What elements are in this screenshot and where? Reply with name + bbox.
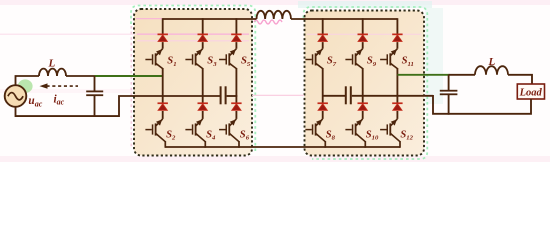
wire leg top S3 [202,18,204,34]
top rail left bridge [163,18,257,20]
cyan wash right of right box [425,8,443,104]
wire source top [16,76,40,85]
switch S5 diode+IGBT [231,34,241,36]
left bridge box pink outline left [130,26,132,148]
output cap plate bottom [440,93,458,95]
dashed current arrow i_ac [47,85,79,87]
top rail right bridge [291,18,397,20]
pink line left box top [136,18,162,20]
inductor L output [475,66,508,75]
wire leg top S7 [322,18,324,34]
switch S3 diode+IGBT [198,34,208,36]
green wire input to leg S1 [95,75,164,77]
left bridge capacitor right lead [227,95,238,97]
ac source circle [5,85,27,107]
right bridge cap rail [323,95,346,97]
output cap lower lead [448,95,450,115]
left bridge box dashed border [134,9,252,156]
svg-text:Load: Load [519,88,543,99]
pink band bottom [0,156,550,162]
phase node wire leg 1 [162,68,164,103]
right bridge capacitor plate right [350,86,352,104]
output cap plate top [440,90,458,92]
wire output cap node to inductor [449,74,475,76]
green wire S11 leg to output cap [397,74,449,76]
left bridge capacitor plate right [225,86,227,104]
left bridge box fill [134,9,252,156]
pink line between boxes [252,94,304,96]
wire leg top S1 [162,18,164,34]
pink line diode row left [137,33,249,35]
pink band mid [0,89,133,93]
wire inductor to cap node [66,75,95,77]
pink band top [0,0,550,5]
dc-link inductor [257,11,292,19]
right bridge box mint outline [304,7,428,159]
pink line diode row right [307,33,421,35]
wire leg top S5 [235,18,237,34]
wire source bottom [16,96,221,116]
svg-text:L: L [48,58,56,70]
switch S7 diode+IGBT [318,34,328,36]
pink ripple wave under link inductor [254,20,282,24]
input filter capacitor C lead [94,76,96,91]
inductor L input [39,69,66,76]
wire leg top S11 [396,18,398,34]
right bridge box fill [305,11,425,156]
right bridge cap rail to output [352,95,433,97]
input cap plate bottom [86,94,103,96]
cyan wash above right box [298,1,432,8]
switch S1 diode+IGBT [158,34,168,36]
input cap plate top [86,91,103,93]
switch S11 diode+IGBT [392,34,402,36]
switch S10 diode+IGBT [358,102,368,104]
pink line diode row outside [0,33,136,35]
switch S4 diode+IGBT [198,102,208,104]
svg-text:L: L [488,56,496,68]
right bridge box dashed border [305,11,425,156]
ac source sine [8,93,23,100]
phase node wire leg 5 [235,68,237,103]
phase node wire leg 7 [322,68,324,103]
left bridge capacitor plate left [220,86,222,104]
switch S9 diode+IGBT [358,34,368,36]
phase node wire leg 3 [202,68,204,103]
switch S8 diode+IGBT [318,102,328,104]
output capacitor top lead [448,75,450,90]
arrowhead i_ac [40,83,48,88]
switch S12 diode+IGBT [392,102,402,104]
switch S2 diode+IGBT [158,102,168,104]
pink line diode row left lower [137,40,249,42]
switch S6 diode+IGBT [231,102,241,104]
bottom rail both bridges [165,146,400,148]
load box [517,84,544,99]
phase node wire leg 11 [396,68,398,103]
wire load bottom [433,95,531,114]
wire leg top S9 [362,18,364,34]
green highlight on source [18,79,33,93]
left bridge box mint outline [131,6,255,152]
right bridge capacitor plate left [345,86,347,104]
wire inductor to load [508,75,532,84]
phase node wire leg 9 [362,68,364,103]
input cap lower lead [94,96,96,117]
